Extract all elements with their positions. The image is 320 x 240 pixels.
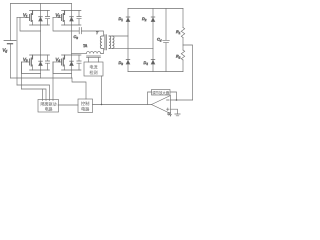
wire gate stub V4 to leg	[53, 62, 72, 74]
wire gate stub V1 to leg	[20, 18, 41, 32]
wire bottom DC bus	[11, 77, 73, 79]
transistor V4	[63, 55, 64, 66]
transformer T core	[105, 35, 106, 50]
diode D2	[151, 16, 155, 18]
wire gate V4 long descent	[52, 62, 54, 101]
diode of V1	[40, 11, 42, 26]
switch cell V1: rails	[30, 11, 50, 26]
resistor R1	[182, 9, 184, 28]
wire feedback up	[148, 92, 152, 105]
wire secondary bottom to bridge	[112, 47, 153, 49]
wire gate stub V3 to leg	[22, 62, 41, 74]
wire cell V3 bottom to bus	[40, 70, 42, 78]
wire CT box output down	[101, 76, 103, 105]
capacitor of V4	[77, 55, 81, 70]
capacitor Cd output	[163, 9, 170, 72]
wire gate stub V2 to primary	[53, 18, 79, 32]
svg-text:D1: D1	[119, 17, 124, 22]
wire gate bus upper	[17, 85, 50, 101]
capacitor of V2	[77, 11, 81, 26]
svg-text:电路: 电路	[81, 106, 90, 113]
wire inverting input	[171, 99, 193, 101]
wire secondary top to bridge	[112, 35, 128, 37]
battery Vd	[4, 40, 16, 42]
resistor R2	[181, 50, 184, 60]
diode D1	[126, 16, 130, 18]
svg-text:Cd: Cd	[157, 38, 162, 43]
wire primary upper to transformer	[81, 31, 103, 36]
svg-text:T: T	[96, 31, 99, 35]
wire rectifier leg 2	[152, 9, 154, 72]
wire control to op-amp output	[93, 104, 152, 106]
svg-text:电流: 电流	[89, 64, 97, 70]
wire divider tap to op-amp	[183, 45, 193, 100]
capacitor of V1	[45, 11, 49, 26]
diode D4	[151, 59, 155, 61]
wire noninverting input to reference	[171, 109, 178, 114]
capacitor of V3	[45, 55, 49, 70]
wire output top rail	[128, 8, 183, 10]
transformer T primary winding	[100, 36, 102, 48]
svg-text:调节放大器: 调节放大器	[152, 90, 170, 95]
wire ground to control	[72, 78, 86, 99]
switch cell V3: rails	[30, 55, 50, 70]
block feedback network	[152, 90, 171, 96]
wire left DC bus lower	[10, 44, 12, 78]
svg-text:D2: D2	[142, 17, 147, 22]
svg-text:TA: TA	[83, 44, 88, 48]
wire drive to control	[58, 104, 78, 106]
transistor V1	[31, 11, 32, 22]
svg-text:Ur: Ur	[168, 112, 173, 117]
switch cell V4: rails	[62, 55, 82, 70]
wire left DC bus upper	[10, 4, 12, 41]
wire output bottom rail	[128, 71, 183, 73]
diode D3	[126, 59, 130, 61]
wire drop to cell V2	[71, 4, 73, 11]
transistor V3	[31, 55, 32, 66]
wire drop to cell V1	[40, 4, 42, 11]
block isolated drive box	[38, 100, 59, 113]
svg-text:R2: R2	[176, 55, 181, 60]
svg-text:R1: R1	[176, 30, 181, 35]
wire CT secondary leads	[89, 57, 99, 62]
block text: current detect	[41, 64, 170, 113]
transformer T secondary winding	[109, 36, 111, 48]
wire gate bus lower	[22, 89, 47, 101]
svg-text:Vd: Vd	[3, 48, 8, 54]
block current detect box	[84, 62, 103, 76]
diode of V2	[71, 11, 73, 26]
svg-text:D3: D3	[119, 61, 124, 66]
capacitor C3 blocking	[79, 28, 81, 34]
wire top DC bus	[11, 3, 72, 5]
svg-text:电路: 电路	[45, 106, 53, 112]
current transformer TA winding	[86, 52, 100, 54]
wire gate V1 long descent	[16, 18, 18, 86]
svg-text:检测: 检测	[89, 69, 97, 75]
block PWM control box	[78, 99, 93, 113]
wire left leg midpoint	[40, 25, 42, 55]
wire cell V4 bottom to bus	[71, 70, 73, 78]
op-amp U1	[152, 96, 171, 114]
wire right leg midpoint	[71, 25, 73, 55]
wire primary lower	[72, 53, 87, 55]
wire rectifier leg 1	[127, 9, 129, 72]
diode of V3	[40, 55, 42, 70]
wire gate V3 long descent	[21, 62, 23, 89]
svg-text:C3: C3	[74, 35, 79, 40]
svg-text:D4: D4	[144, 61, 149, 66]
transistor V2	[63, 11, 64, 22]
switch cell V2: rails	[62, 11, 82, 26]
diode of V4	[71, 55, 73, 70]
